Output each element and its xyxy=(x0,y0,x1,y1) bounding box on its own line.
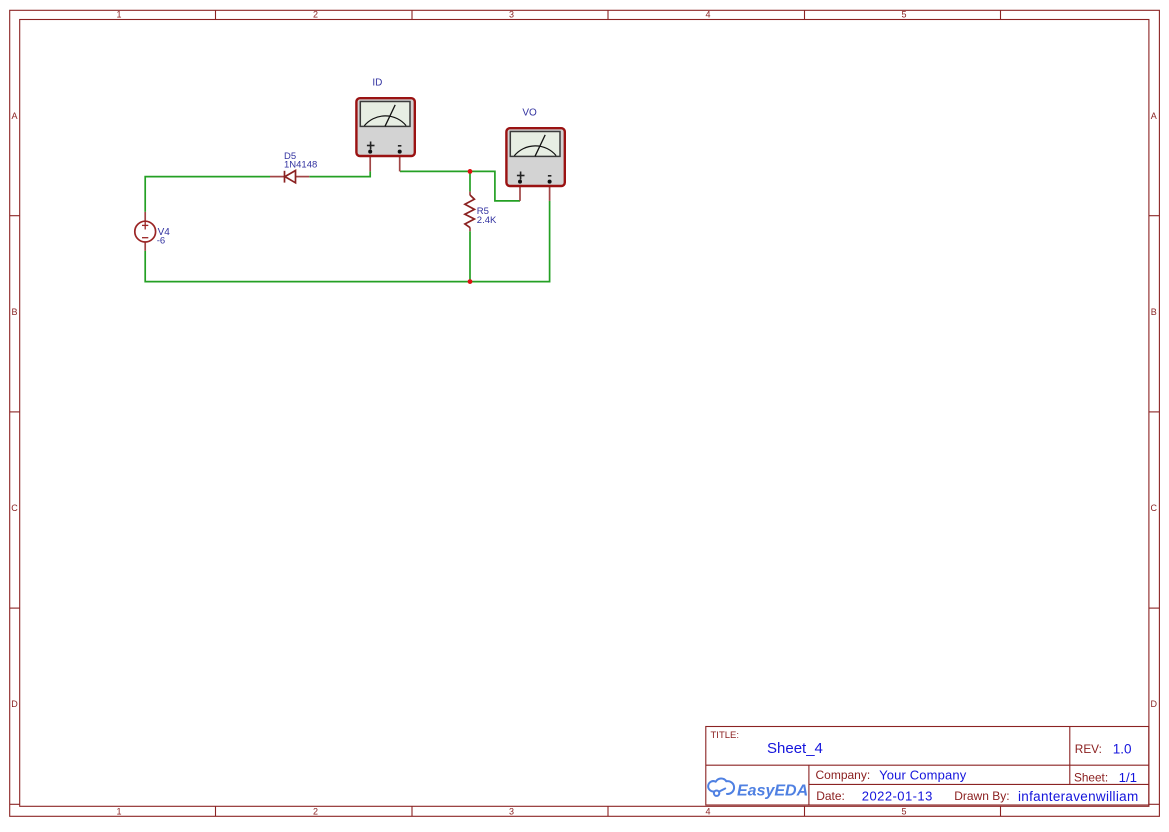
svg-text:REV:: REV: xyxy=(1075,742,1102,756)
svg-text:1: 1 xyxy=(116,807,121,817)
svg-text:5: 5 xyxy=(901,10,906,20)
svg-text:1: 1 xyxy=(116,10,121,20)
svg-text:Date:: Date: xyxy=(816,789,845,803)
svg-text:3: 3 xyxy=(509,10,514,20)
svg-text:D: D xyxy=(1151,699,1158,709)
svg-text:Company:: Company: xyxy=(816,768,871,782)
svg-text:B: B xyxy=(11,307,17,317)
svg-text:A: A xyxy=(11,111,17,121)
svg-text:Sheet:: Sheet: xyxy=(1074,771,1108,785)
svg-text:ID: ID xyxy=(372,77,382,88)
svg-text:2.4K: 2.4K xyxy=(477,215,497,226)
svg-text:2: 2 xyxy=(313,807,318,817)
svg-text:Your Company: Your Company xyxy=(879,767,967,782)
svg-text:Sheet_4: Sheet_4 xyxy=(767,740,823,757)
svg-text:2022-01-13: 2022-01-13 xyxy=(862,789,933,804)
svg-text:D: D xyxy=(11,699,18,709)
svg-text:5: 5 xyxy=(901,807,906,817)
svg-text:C: C xyxy=(1151,503,1158,513)
svg-text:infanteravenwilliam: infanteravenwilliam xyxy=(1018,789,1139,804)
svg-text:EasyEDA: EasyEDA xyxy=(737,782,808,799)
svg-text:B: B xyxy=(1151,307,1157,317)
svg-text:-6: -6 xyxy=(157,235,165,246)
svg-text:4: 4 xyxy=(705,807,710,817)
svg-text:Drawn By:: Drawn By: xyxy=(954,789,1009,803)
svg-text:TITLE:: TITLE: xyxy=(711,730,740,741)
svg-text:2: 2 xyxy=(313,10,318,20)
svg-text:1N4148: 1N4148 xyxy=(284,160,317,171)
svg-text:3: 3 xyxy=(509,807,514,817)
svg-text:VO: VO xyxy=(522,107,537,118)
svg-text:1/1: 1/1 xyxy=(1119,770,1138,785)
svg-text:1.0: 1.0 xyxy=(1113,742,1132,757)
svg-text:4: 4 xyxy=(705,10,710,20)
svg-text:A: A xyxy=(1151,111,1157,121)
svg-text:C: C xyxy=(11,503,18,513)
